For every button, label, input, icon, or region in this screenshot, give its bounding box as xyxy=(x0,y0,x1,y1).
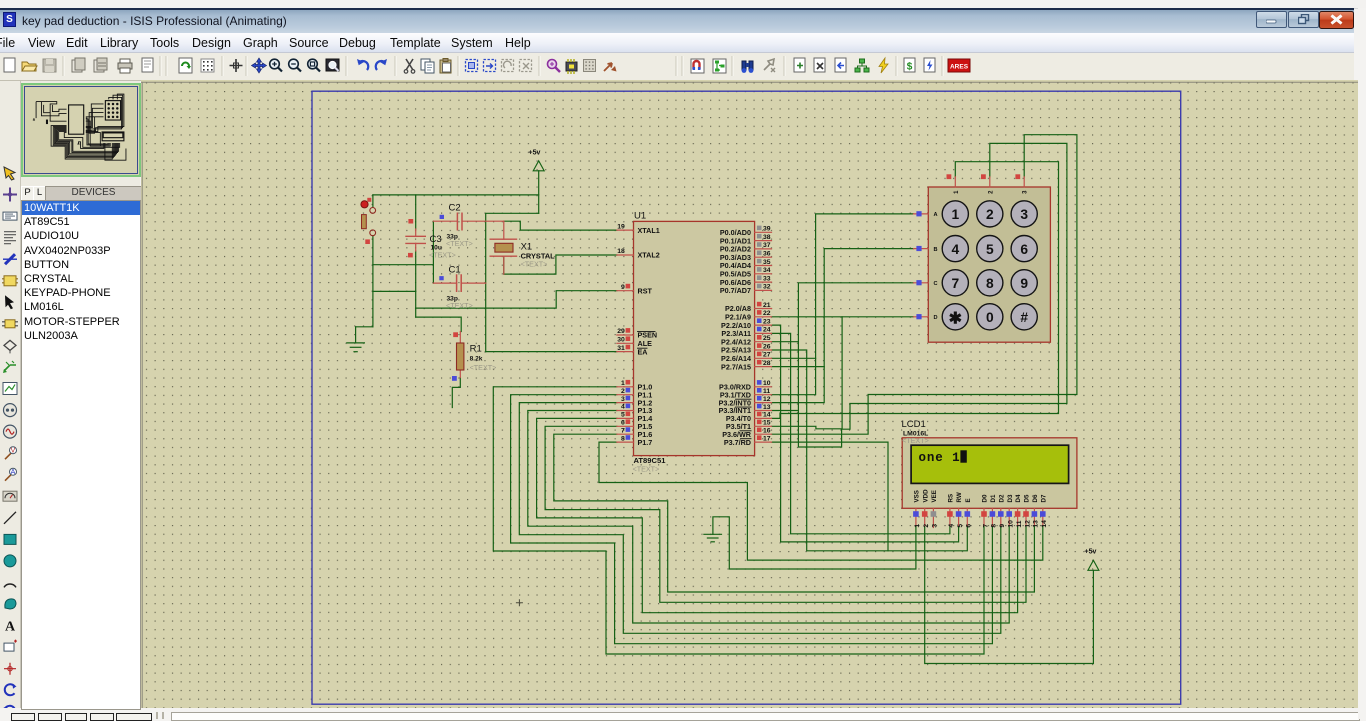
svg-text:2: 2 xyxy=(986,207,994,222)
wire P2.7 stub xyxy=(772,366,825,368)
svg-text:1: 1 xyxy=(951,207,959,222)
svg-text:one 1: one 1 xyxy=(919,451,961,465)
svg-text:RST: RST xyxy=(638,286,653,295)
wire button bottom rail xyxy=(372,236,374,327)
svg-text:8.2k: 8.2k xyxy=(470,356,483,363)
origin marker xyxy=(516,600,522,606)
svg-text:5: 5 xyxy=(957,524,964,528)
svg-text:<TEXT>: <TEXT> xyxy=(429,251,456,260)
wire C3 bottom rail xyxy=(415,251,417,308)
svg-text:33: 33 xyxy=(763,275,771,282)
svg-text:12: 12 xyxy=(763,396,771,403)
wire LCD VDD to +5v xyxy=(925,526,1094,664)
wire rail B xyxy=(373,290,416,292)
svg-text:32: 32 xyxy=(763,284,771,291)
svg-text:VSS: VSS xyxy=(914,490,921,502)
svg-text:6: 6 xyxy=(966,524,973,528)
microcontroller U1 AT89C51 xyxy=(633,211,755,474)
svg-text:R1: R1 xyxy=(470,344,482,355)
wire P1.3 to LCD D3 xyxy=(528,411,1009,624)
svg-text:36: 36 xyxy=(763,251,771,258)
svg-text:P0.7/AD7: P0.7/AD7 xyxy=(720,286,751,295)
svg-text:28: 28 xyxy=(763,360,771,367)
svg-text:A: A xyxy=(934,212,938,218)
wire P1.5 to LCD D5 xyxy=(545,426,1026,602)
svg-text:D1: D1 xyxy=(990,494,997,502)
keypad row pins A B C D xyxy=(914,211,938,321)
wire RST to R1 jog xyxy=(416,308,462,331)
wire P2.2 to LCD RW xyxy=(772,325,959,542)
svg-text:✱: ✱ xyxy=(949,310,962,327)
svg-text:C2: C2 xyxy=(449,203,461,214)
pushbutton (BUTTON) xyxy=(361,198,376,244)
svg-text:24: 24 xyxy=(763,327,771,334)
svg-text:0: 0 xyxy=(986,310,994,325)
wire P1.6 to LCD D6 xyxy=(554,434,1035,592)
svg-text:19: 19 xyxy=(617,223,625,230)
svg-text:B: B xyxy=(934,247,938,253)
svg-text:7: 7 xyxy=(982,524,989,528)
svg-text:P1.7: P1.7 xyxy=(638,438,653,447)
svg-text:A: A xyxy=(5,620,16,635)
wire +5v drop to C1/EA rail xyxy=(486,213,539,351)
U1 right pins xyxy=(719,226,772,447)
wire P2.6 stub xyxy=(772,357,816,359)
wire C2 right to XTAL1 xyxy=(504,221,617,230)
wire button top xyxy=(372,195,374,207)
wire keypad row C rail xyxy=(798,143,1067,447)
svg-text:2: 2 xyxy=(923,524,930,528)
LCD1 LM016L xyxy=(902,419,1077,508)
svg-text:18: 18 xyxy=(617,248,625,255)
wire crystal bottom to XTAL2 xyxy=(504,255,617,274)
keypad KEYPAD-PHONE xyxy=(928,187,1050,342)
svg-text:14: 14 xyxy=(1041,520,1048,528)
svg-text:RW: RW xyxy=(956,492,963,502)
svg-text:7: 7 xyxy=(621,427,625,434)
svg-text:15: 15 xyxy=(763,420,771,427)
svg-text:LCD1: LCD1 xyxy=(902,419,926,430)
wire keypad row A to P3.1 xyxy=(772,214,914,395)
svg-text:D3: D3 xyxy=(1007,494,1014,502)
wire P2.5 to LCD E xyxy=(772,350,968,551)
svg-text:D4: D4 xyxy=(1015,494,1022,502)
svg-text:39: 39 xyxy=(763,226,771,233)
svg-text:+5v: +5v xyxy=(529,150,541,157)
svg-text:5: 5 xyxy=(621,412,625,419)
wire left rail C2-C1 xyxy=(432,221,434,283)
svg-text:10: 10 xyxy=(1008,520,1015,528)
wire C3 top tap xyxy=(415,195,417,229)
svg-text:6: 6 xyxy=(621,420,625,427)
svg-text:11: 11 xyxy=(763,388,770,395)
svg-text:4: 4 xyxy=(951,242,959,257)
svg-text:10: 10 xyxy=(763,380,771,387)
svg-text:8: 8 xyxy=(991,524,998,528)
svg-text:D7: D7 xyxy=(1040,494,1047,502)
svg-text:25: 25 xyxy=(763,335,771,342)
sheet border xyxy=(312,91,1181,704)
svg-text:4: 4 xyxy=(621,404,625,411)
svg-text:27: 27 xyxy=(763,352,771,359)
wire ground link xyxy=(356,326,373,328)
capacitor C3 (10u) xyxy=(406,219,456,260)
svg-text:D6: D6 xyxy=(1032,494,1039,502)
wire R1 bottom dangling xyxy=(452,378,460,408)
svg-text:C1: C1 xyxy=(449,265,461,276)
capacitor C1 (33p) xyxy=(433,265,485,311)
wire LCD VSS to ground xyxy=(713,517,916,569)
wire RST run xyxy=(416,291,617,308)
svg-text:38: 38 xyxy=(763,234,771,241)
wire keypad col1 to P3.4 xyxy=(772,162,1059,419)
svg-text:21: 21 xyxy=(763,302,771,309)
capacitor C2 (33p) xyxy=(433,203,503,249)
svg-text:VDD: VDD xyxy=(922,489,929,503)
wire top rail button to +5v xyxy=(373,194,539,196)
svg-text:6: 6 xyxy=(1020,242,1028,257)
keypad column pins 1 2 3 xyxy=(947,174,1029,194)
svg-text:V: V xyxy=(11,448,16,455)
svg-text:8: 8 xyxy=(986,276,994,291)
wire +5v stem xyxy=(538,171,540,214)
svg-text:VEE: VEE xyxy=(931,490,938,502)
svg-text:A: A xyxy=(11,469,16,476)
svg-text:E: E xyxy=(965,498,972,502)
svg-text:3: 3 xyxy=(932,524,939,528)
ground symbol under chip xyxy=(704,534,722,542)
wire P3.3 stub xyxy=(772,410,799,412)
svg-text:34: 34 xyxy=(763,267,771,274)
wire rail A xyxy=(373,264,434,266)
svg-text:31: 31 xyxy=(617,345,625,352)
wire P2.1 to keypad row D xyxy=(772,316,914,318)
svg-text:D: D xyxy=(934,315,938,321)
svg-text:4: 4 xyxy=(948,524,955,528)
wire keypad col3 to P3.6 xyxy=(772,135,1077,435)
svg-text:13: 13 xyxy=(763,404,771,411)
svg-text:C: C xyxy=(934,281,938,287)
svg-text:11: 11 xyxy=(1016,520,1023,527)
svg-text:9: 9 xyxy=(1020,276,1028,291)
ground symbol left xyxy=(347,327,365,352)
svg-text:14: 14 xyxy=(763,412,771,419)
wire P1.2 to LCD D2 xyxy=(519,403,1001,634)
svg-text:D5: D5 xyxy=(1024,494,1031,502)
svg-text:1: 1 xyxy=(621,380,625,387)
svg-text:<TEXT>: <TEXT> xyxy=(446,301,473,310)
wire P1.0 to LCD D0 xyxy=(493,387,984,654)
wire keypad row B to P3.2 xyxy=(772,249,914,403)
svg-text:30: 30 xyxy=(617,337,625,344)
wire P2.4 stub xyxy=(772,341,799,343)
svg-text:+5v: +5v xyxy=(1085,549,1097,556)
svg-text:23: 23 xyxy=(763,318,771,325)
svg-text:U1: U1 xyxy=(634,211,646,222)
svg-text:22: 22 xyxy=(763,310,771,317)
schematic canvas xyxy=(141,80,1358,708)
svg-text:<TEXT>: <TEXT> xyxy=(902,436,929,445)
svg-text:<TEXT>: <TEXT> xyxy=(446,239,473,248)
svg-text:35: 35 xyxy=(763,259,771,266)
power terminal +5v (top) xyxy=(529,150,545,171)
svg-text:RS: RS xyxy=(948,494,955,503)
power terminal +5v (bottom right) xyxy=(1085,549,1099,571)
wire P2.3 to LCD RS xyxy=(772,333,950,533)
crystal X1 xyxy=(490,221,555,274)
U1 left pins xyxy=(617,223,660,446)
svg-text:D0: D0 xyxy=(982,494,989,502)
svg-text:D2: D2 xyxy=(998,494,1005,502)
svg-text:C3: C3 xyxy=(430,234,442,245)
svg-text:$: $ xyxy=(907,62,913,73)
svg-text:9: 9 xyxy=(999,524,1006,528)
svg-text:5: 5 xyxy=(986,242,994,257)
svg-text:#: # xyxy=(1020,310,1028,325)
svg-text:9: 9 xyxy=(621,284,625,291)
svg-text:3: 3 xyxy=(1020,207,1028,222)
keypad keys xyxy=(942,201,1037,330)
svg-text:37: 37 xyxy=(763,242,771,249)
LCD pins 1-14 xyxy=(913,489,1048,528)
wire P1.1 to LCD D1 xyxy=(511,395,993,644)
svg-text:17: 17 xyxy=(763,435,771,442)
svg-text:7: 7 xyxy=(951,276,959,291)
svg-text:16: 16 xyxy=(763,428,771,435)
wire P1.7 to LCD D7 xyxy=(599,442,1043,560)
wire P3.7 drop xyxy=(772,442,889,551)
wire P1.4 to LCD D4 xyxy=(537,418,1018,612)
svg-text:<TEXT>: <TEXT> xyxy=(633,465,660,474)
svg-text:13: 13 xyxy=(1033,520,1040,528)
svg-text:P2.7/A15: P2.7/A15 xyxy=(721,362,751,371)
svg-text:<TEXT>: <TEXT> xyxy=(521,260,548,269)
svg-text:8: 8 xyxy=(621,435,625,442)
resistor R1 (8.2k) xyxy=(452,332,496,381)
svg-text:26: 26 xyxy=(763,343,771,350)
svg-text:2: 2 xyxy=(621,388,625,395)
svg-text:XTAL1: XTAL1 xyxy=(638,226,660,235)
wire EA to chip xyxy=(486,351,617,353)
svg-text:XTAL2: XTAL2 xyxy=(638,251,660,260)
svg-text:<TEXT>: <TEXT> xyxy=(470,363,497,372)
svg-text:12: 12 xyxy=(1024,520,1031,528)
wire row D link to P3.5 xyxy=(772,317,843,429)
svg-text:1: 1 xyxy=(914,524,921,528)
svg-text:ARES: ARES xyxy=(950,64,969,71)
svg-text:3: 3 xyxy=(621,396,625,403)
svg-text:29: 29 xyxy=(617,328,625,335)
